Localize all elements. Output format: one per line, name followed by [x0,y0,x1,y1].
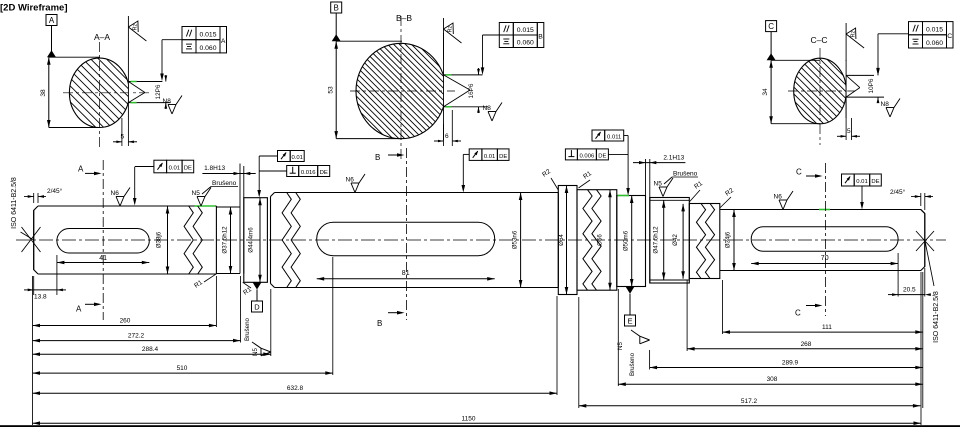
svg-text:0.01: 0.01 [484,154,495,160]
svg-text:R2: R2 [724,187,735,198]
surface roughness N6 on section1 [116,197,120,207]
dimension Ø34j6 [733,210,735,271]
leader to Ø53 top [463,153,469,155]
svg-text:0.015: 0.015 [199,32,216,39]
relief groove 2.1H13 lines [645,197,647,283]
svg-text:5: 5 [121,134,125,141]
surface roughness N8 in B-B [488,112,492,122]
FCF B-B datum cell [537,23,544,48]
section A-A centerlines [98,42,100,148]
svg-text:517.2: 517.2 [741,398,758,405]
datum D flag [253,282,262,289]
svg-text:70: 70 [821,255,829,262]
FCF A-A parallel 0.015 [182,27,196,40]
svg-text:Ø42: Ø42 [672,234,679,246]
svg-text:Ø53n6: Ø53n6 [512,230,519,249]
dimension 20.5 [897,253,899,297]
cutting plane B-B [406,148,408,320]
dimension 13.8 [33,276,35,295]
svg-text:2/45°: 2/45° [890,188,906,196]
dimension Ø53n6 [520,193,522,288]
svg-text:34: 34 [762,88,769,96]
svg-text:[2D Wireframe]: [2D Wireframe] [0,3,68,14]
perpendicularity FCF 0.006 DE [565,149,577,160]
svg-text:C: C [796,168,802,177]
FCF B-B symmetry 0.060 [499,35,513,48]
section C-C keyway [846,76,847,97]
runout FCF 0.011 right [592,130,605,141]
FCF A-A datum cell [220,27,227,53]
runout FCF 0.01 DE right end [842,174,855,186]
section B-B circle [356,43,446,138]
shaft end section Ø34j6 [720,210,925,271]
dimension Ø50m6 [631,196,633,287]
dimension Ø56 [609,190,611,291]
dimension 6 keyway depth B [443,124,445,146]
svg-text:C: C [768,22,774,31]
main centerline [16,239,946,241]
cutting plane C-C [825,163,827,316]
svg-text:Brušeno: Brušeno [244,317,251,341]
svg-text:R2: R2 [541,168,552,179]
dimension 510 [332,257,334,375]
green ground highlight on Ø50 top [618,195,630,197]
FCF A-A symmetry 0.060 [182,40,196,53]
svg-text:B–B: B–B [396,13,412,23]
shaft thread section Ø47.5h12 [650,198,690,284]
svg-text:DE: DE [320,170,328,176]
dimension 517.2 [578,297,580,408]
dimension 288.4 [270,289,272,356]
svg-text:53: 53 [327,86,334,94]
shaft middle section Ø53n6 [275,192,559,194]
left center-hole mark [22,227,41,252]
svg-text:0.060: 0.060 [926,40,943,47]
dimension Ø64 [566,186,568,295]
svg-text:10P6: 10P6 [868,78,875,93]
dimension Ø37.5h12 [230,207,232,274]
surface roughness N6 on section4 [351,183,355,193]
svg-text:N5: N5 [192,190,201,197]
dimension 81 keyway length [317,278,495,280]
leader FCF C to keyway [878,33,909,35]
svg-text:DE: DE [184,166,192,172]
datum E flag [626,287,635,294]
svg-text:R1: R1 [193,279,204,290]
leader FCF A to keyway [162,39,182,41]
svg-text:Brušeno: Brušeno [629,352,636,376]
svg-text:Rz: Rz [133,24,139,31]
svg-text:2/45°: 2/45° [47,187,63,195]
runout FCF 0.01 DE left [154,160,167,173]
section B-B centerlines [400,16,402,160]
svg-text:B: B [375,153,380,162]
svg-text:0.015: 0.015 [517,27,534,34]
FCF B-B parallel 0.015 [499,23,513,36]
svg-text:13.8: 13.8 [34,294,47,301]
dimension Ø38j6 [167,206,169,274]
keyway slot 81 in section 4 [317,222,495,255]
dimension Ø44.4m6 [259,198,261,283]
shaft bearing seat Ø44.4m6 [244,198,268,283]
svg-text:260: 260 [120,318,131,325]
Rz flag A-A [127,16,129,58]
dimension 34 of section C-C [771,59,820,61]
datum B flag [331,2,342,13]
dimension 260 [32,276,34,425]
surface roughness N5 right [659,187,663,197]
svg-text:0.006: 0.006 [580,154,595,160]
green highlight on Ø34 top [819,209,830,211]
dimension 41 keyway length [57,262,149,264]
svg-text:A: A [221,38,226,45]
dimension 5 keyway depth A [121,118,123,146]
svg-text:B: B [377,319,382,328]
svg-text:Ø44.4m6: Ø44.4m6 [248,227,255,253]
svg-text:A: A [49,16,55,25]
svg-text:DE: DE [499,154,507,160]
svg-text:0.060: 0.060 [199,45,216,52]
svg-text:Ø50m6: Ø50m6 [623,230,630,251]
dimension Ø42 [682,204,684,279]
dimension 53 of section B-B [336,40,402,42]
svg-text:C: C [795,309,801,318]
section A-A circle [69,58,129,127]
thread zigzag section right [689,204,720,279]
dimension 268 [686,280,688,351]
svg-text:Brušeno: Brušeno [212,180,237,187]
svg-text:288.4: 288.4 [142,346,159,353]
svg-text:C–C: C–C [810,35,827,45]
svg-text:0.015: 0.015 [926,27,943,34]
bottom window edge [0,425,960,427]
spline zigzag band on section 6 [583,190,592,291]
leader to section1 top [135,166,154,168]
surface roughness N5 left [197,197,201,207]
shaft spline section Ø56 [577,190,617,291]
section B-B keyway [444,75,447,106]
svg-text:Ø34j6: Ø34j6 [725,231,732,248]
svg-text:C: C [947,33,952,40]
dimension 289.9 [649,350,651,370]
svg-text:0.01: 0.01 [856,179,867,185]
svg-text:Ø64: Ø64 [558,234,565,246]
svg-text:N6: N6 [346,177,355,184]
svg-text:N8: N8 [483,105,492,112]
svg-text:111: 111 [822,324,832,331]
thread zigzag band on section 1 [184,206,193,274]
shaft thread section Ø37.5h12 [216,206,240,208]
dimension 70 keyway length [751,263,898,265]
shaft bearing seat Ø50m6 [617,196,646,287]
svg-text:Brušeno: Brušeno [673,171,698,178]
svg-text:N6: N6 [774,194,783,201]
green ground highlight on thread top [195,205,216,207]
svg-text:0.01: 0.01 [291,155,302,161]
svg-text:R1: R1 [693,180,704,191]
cutting plane A-A [102,160,104,320]
section C-C centerlines [819,48,821,145]
perpendicularity FCF 0.016 DE [287,166,299,177]
surface roughness N8 in C-C [886,108,890,118]
svg-text:DE: DE [598,154,606,160]
svg-text:81: 81 [402,270,410,277]
svg-text:N8: N8 [163,98,172,105]
surface roughness N8 in A-A [168,105,172,115]
svg-text:1150: 1150 [462,416,476,423]
datum C flag [766,21,777,32]
dimension 632.8 [556,296,558,395]
dimension 38 of section A-A [49,56,100,58]
svg-text:N6: N6 [111,190,120,197]
svg-text:N5: N5 [252,348,259,356]
spline zigzag band on section 4 [282,193,291,288]
svg-text:38: 38 [40,89,47,97]
svg-text:289.9: 289.9 [782,360,799,367]
svg-text:12P6: 12P6 [155,84,162,99]
surface roughness N6 on Ø34 [779,200,783,210]
section C-C circle [794,58,847,124]
leader to Ø50 top [624,135,628,137]
FCF C-C parallel 0.015 [909,22,923,35]
svg-text:Ø38j6: Ø38j6 [156,231,163,248]
svg-text:510: 510 [177,365,188,372]
svg-text:0.01: 0.01 [169,166,180,172]
svg-text:E: E [627,316,632,325]
shaft collar Ø64 [558,186,577,295]
datum A flag [46,15,57,26]
runout FCF 0.01 DE middle [469,149,482,161]
svg-text:0.016: 0.016 [301,170,316,176]
svg-text:B: B [538,34,543,41]
keyway slot 70 in section 10 [751,227,898,252]
svg-text:5: 5 [847,128,851,135]
svg-text:A: A [78,165,84,174]
dimension 308 [617,289,619,386]
svg-text:Rz: Rz [448,26,454,33]
FCF C-C datum cell [947,22,954,48]
leader to Ø34 top [861,186,863,207]
keyway slot 41 in section 1 [57,229,149,254]
dimension 1150 [920,272,922,425]
dimension Ø47.5h12 [663,200,665,280]
svg-text:632.8: 632.8 [287,385,304,392]
svg-text:268: 268 [801,341,812,348]
dimension 272.2 [240,276,242,343]
svg-text:16P6: 16P6 [468,83,475,98]
green marks keyway corners A [131,81,137,83]
svg-text:6: 6 [445,133,449,140]
runout FCF 0.01 over groove [278,151,291,162]
svg-text:20.5: 20.5 [903,287,916,294]
relief groove 1.8H13 lines [239,164,241,274]
svg-text:D: D [254,302,260,311]
svg-text:0.011: 0.011 [607,135,621,141]
svg-text:R1: R1 [582,170,593,181]
dimension 12P6 [165,75,167,82]
svg-text:N5: N5 [654,181,663,188]
svg-text:A–A: A–A [94,32,110,42]
svg-text:ISO 6411-B2.5/8: ISO 6411-B2.5/8 [933,291,940,343]
dimension 10P6 [877,69,879,75]
svg-text:Ø37.5h12: Ø37.5h12 [222,226,229,254]
dimension 5 keyway depth C [845,102,847,140]
svg-text:A: A [76,305,82,314]
svg-text:Ø56: Ø56 [597,234,604,246]
Rz flag C-C [845,23,847,61]
svg-text:Ø47.5h12: Ø47.5h12 [652,226,659,254]
svg-text:DE: DE [871,179,879,185]
dimension 111 [722,280,724,334]
svg-text:N8: N8 [881,101,890,108]
svg-text:2.1H13: 2.1H13 [663,154,684,161]
svg-text:308: 308 [767,376,778,383]
svg-text:R1: R1 [242,286,253,297]
section A-A keyway [129,82,131,102]
leader to Ø44.4 seat [259,155,277,157]
svg-text:B: B [334,4,339,13]
svg-text:0.060: 0.060 [517,40,534,47]
svg-text:1.8H13: 1.8H13 [204,165,225,172]
svg-text:ISO 6411-B2.5/8: ISO 6411-B2.5/8 [11,177,18,229]
shaft section Ø38j6 outline [38,205,216,207]
right center-hole mark [916,231,934,251]
svg-text:Rz: Rz [850,31,856,38]
svg-text:272.2: 272.2 [128,333,145,340]
Rz flag B-B [443,18,445,60]
dimension 16P6 [478,68,480,75]
leader FCF B to keyway [483,34,500,36]
FCF C-C symmetry 0.060 [909,35,923,48]
green marks keyway corners B [446,74,452,76]
